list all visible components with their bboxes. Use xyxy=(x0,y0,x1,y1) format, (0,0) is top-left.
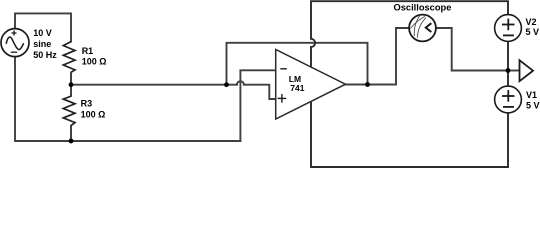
svg-text:Oscilloscope: Oscilloscope xyxy=(394,3,452,13)
svg-text:741: 741 xyxy=(290,83,304,93)
svg-text:R1: R1 xyxy=(82,46,94,56)
svg-text:50 Hz: 50 Hz xyxy=(33,50,57,60)
svg-text:5 V: 5 V xyxy=(526,27,540,37)
svg-text:10 V: 10 V xyxy=(33,28,52,38)
svg-text:100 Ω: 100 Ω xyxy=(82,56,107,66)
svg-text:100 Ω: 100 Ω xyxy=(81,109,106,119)
svg-text:R3: R3 xyxy=(81,99,93,109)
svg-text:5 V: 5 V xyxy=(526,101,540,111)
svg-text:V1: V1 xyxy=(526,90,537,100)
svg-text:V2: V2 xyxy=(526,17,537,27)
svg-text:sine: sine xyxy=(33,39,51,49)
